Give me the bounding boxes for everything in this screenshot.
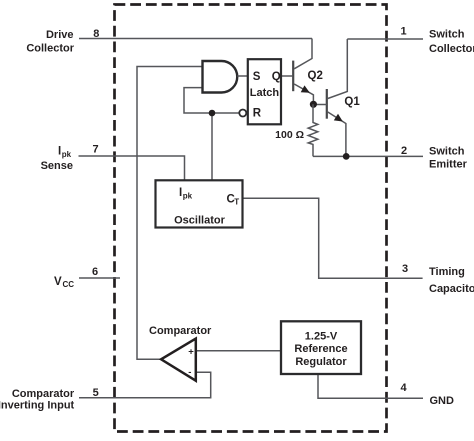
pin 1 wire (Switch Collector) bbox=[347, 38, 423, 40]
svg-text:Latch: Latch bbox=[250, 87, 280, 99]
pin 7 label bbox=[41, 144, 99, 172]
svg-text:+: + bbox=[188, 347, 194, 358]
pin 6 wire (VCC) bbox=[79, 277, 120, 279]
svg-text:Q: Q bbox=[272, 71, 281, 83]
svg-text:Reference: Reference bbox=[294, 343, 347, 355]
svg-text:1.25-V: 1.25-V bbox=[305, 330, 338, 342]
svg-text:I: I bbox=[179, 187, 182, 199]
comparator U2 bbox=[149, 325, 212, 381]
svg-text:Q1: Q1 bbox=[344, 96, 360, 108]
svg-text:Collector: Collector bbox=[26, 43, 74, 55]
svg-text:100 Ω: 100 Ω bbox=[275, 129, 304, 141]
pin 8 label bbox=[26, 28, 99, 55]
node junction dot Q2 emitter / Q1 base / resistor top bbox=[310, 101, 317, 108]
svg-text:Comparator: Comparator bbox=[12, 388, 75, 400]
pin 4 label bbox=[400, 382, 454, 407]
svg-text:CC: CC bbox=[63, 280, 75, 289]
svg-text:3: 3 bbox=[402, 263, 408, 275]
pin 6 label bbox=[54, 266, 98, 289]
svg-text:S: S bbox=[253, 71, 261, 83]
pin 2 label bbox=[401, 145, 468, 171]
node junction dot at R line bbox=[209, 110, 216, 117]
svg-text:8: 8 bbox=[93, 28, 99, 40]
AND gate bbox=[203, 61, 238, 93]
comparator plus input wire from reference regulator bbox=[197, 350, 282, 352]
svg-text:2: 2 bbox=[401, 145, 407, 157]
wire latch R from bubble bbox=[246, 112, 248, 114]
svg-text:Timing: Timing bbox=[429, 266, 465, 278]
latch R inversion bubble bbox=[239, 110, 246, 117]
wire latch Q to Q2 base bbox=[281, 75, 292, 77]
oscillator block bbox=[156, 180, 243, 227]
svg-text:7: 7 bbox=[92, 144, 98, 156]
resistor R1 100 ohm bbox=[275, 104, 318, 156]
svg-text:I: I bbox=[58, 145, 61, 157]
svg-text:pk: pk bbox=[183, 192, 193, 201]
svg-text:Switch: Switch bbox=[429, 146, 465, 158]
svg-text:Switch: Switch bbox=[429, 29, 465, 41]
svg-text:-: - bbox=[188, 367, 191, 378]
pin 3 wire (Timing Capacitor) bbox=[243, 198, 423, 278]
pin 8 wire (Drive Collector) bbox=[79, 38, 312, 40]
svg-text:6: 6 bbox=[92, 266, 98, 278]
svg-text:Oscillator: Oscillator bbox=[174, 215, 225, 227]
svg-text:Regulator: Regulator bbox=[295, 356, 347, 368]
svg-text:4: 4 bbox=[400, 382, 407, 394]
svg-text:Capacitor: Capacitor bbox=[429, 283, 474, 295]
pin 2 wire (Switch Emitter) bbox=[313, 155, 423, 157]
svg-text:T: T bbox=[234, 198, 239, 207]
svg-text:V: V bbox=[54, 276, 62, 288]
reference regulator block bbox=[281, 321, 361, 374]
transistor Q2 bbox=[293, 39, 323, 105]
pin 5 wire (Comparator Inverting Input) bbox=[79, 372, 211, 398]
latch U1 (SR latch) bbox=[248, 59, 281, 124]
svg-text:Inverting Input: Inverting Input bbox=[0, 400, 75, 412]
pin 1 label bbox=[400, 25, 474, 55]
pin 7 wire (Ipk Sense) bbox=[79, 156, 185, 181]
svg-text:R: R bbox=[253, 108, 262, 120]
AND gate output wire bbox=[237, 75, 248, 77]
pin 5 label bbox=[0, 387, 99, 412]
svg-text:Drive: Drive bbox=[46, 29, 74, 41]
svg-text:Sense: Sense bbox=[41, 160, 73, 172]
oscillator to AND gate / latch R wire bbox=[184, 88, 239, 113]
transistor Q1 bbox=[313, 39, 360, 156]
IC boundary dashed box bbox=[115, 5, 387, 432]
svg-text:1: 1 bbox=[400, 25, 406, 37]
svg-text:Collector: Collector bbox=[429, 43, 474, 55]
pin 3 label bbox=[402, 263, 474, 295]
svg-text:Q2: Q2 bbox=[308, 70, 323, 82]
svg-text:5: 5 bbox=[93, 387, 99, 399]
svg-text:Comparator: Comparator bbox=[149, 325, 212, 337]
svg-text:GND: GND bbox=[430, 395, 455, 407]
node junction dot Q1 emitter on pin2 line bbox=[343, 153, 350, 160]
pin 4 wire (GND) bbox=[318, 374, 423, 398]
feedback wire comparator output to AND input bbox=[137, 67, 203, 360]
svg-text:Emitter: Emitter bbox=[429, 159, 468, 171]
oscillator drive wire down to oscillator bbox=[211, 113, 213, 180]
svg-text:pk: pk bbox=[62, 150, 72, 159]
